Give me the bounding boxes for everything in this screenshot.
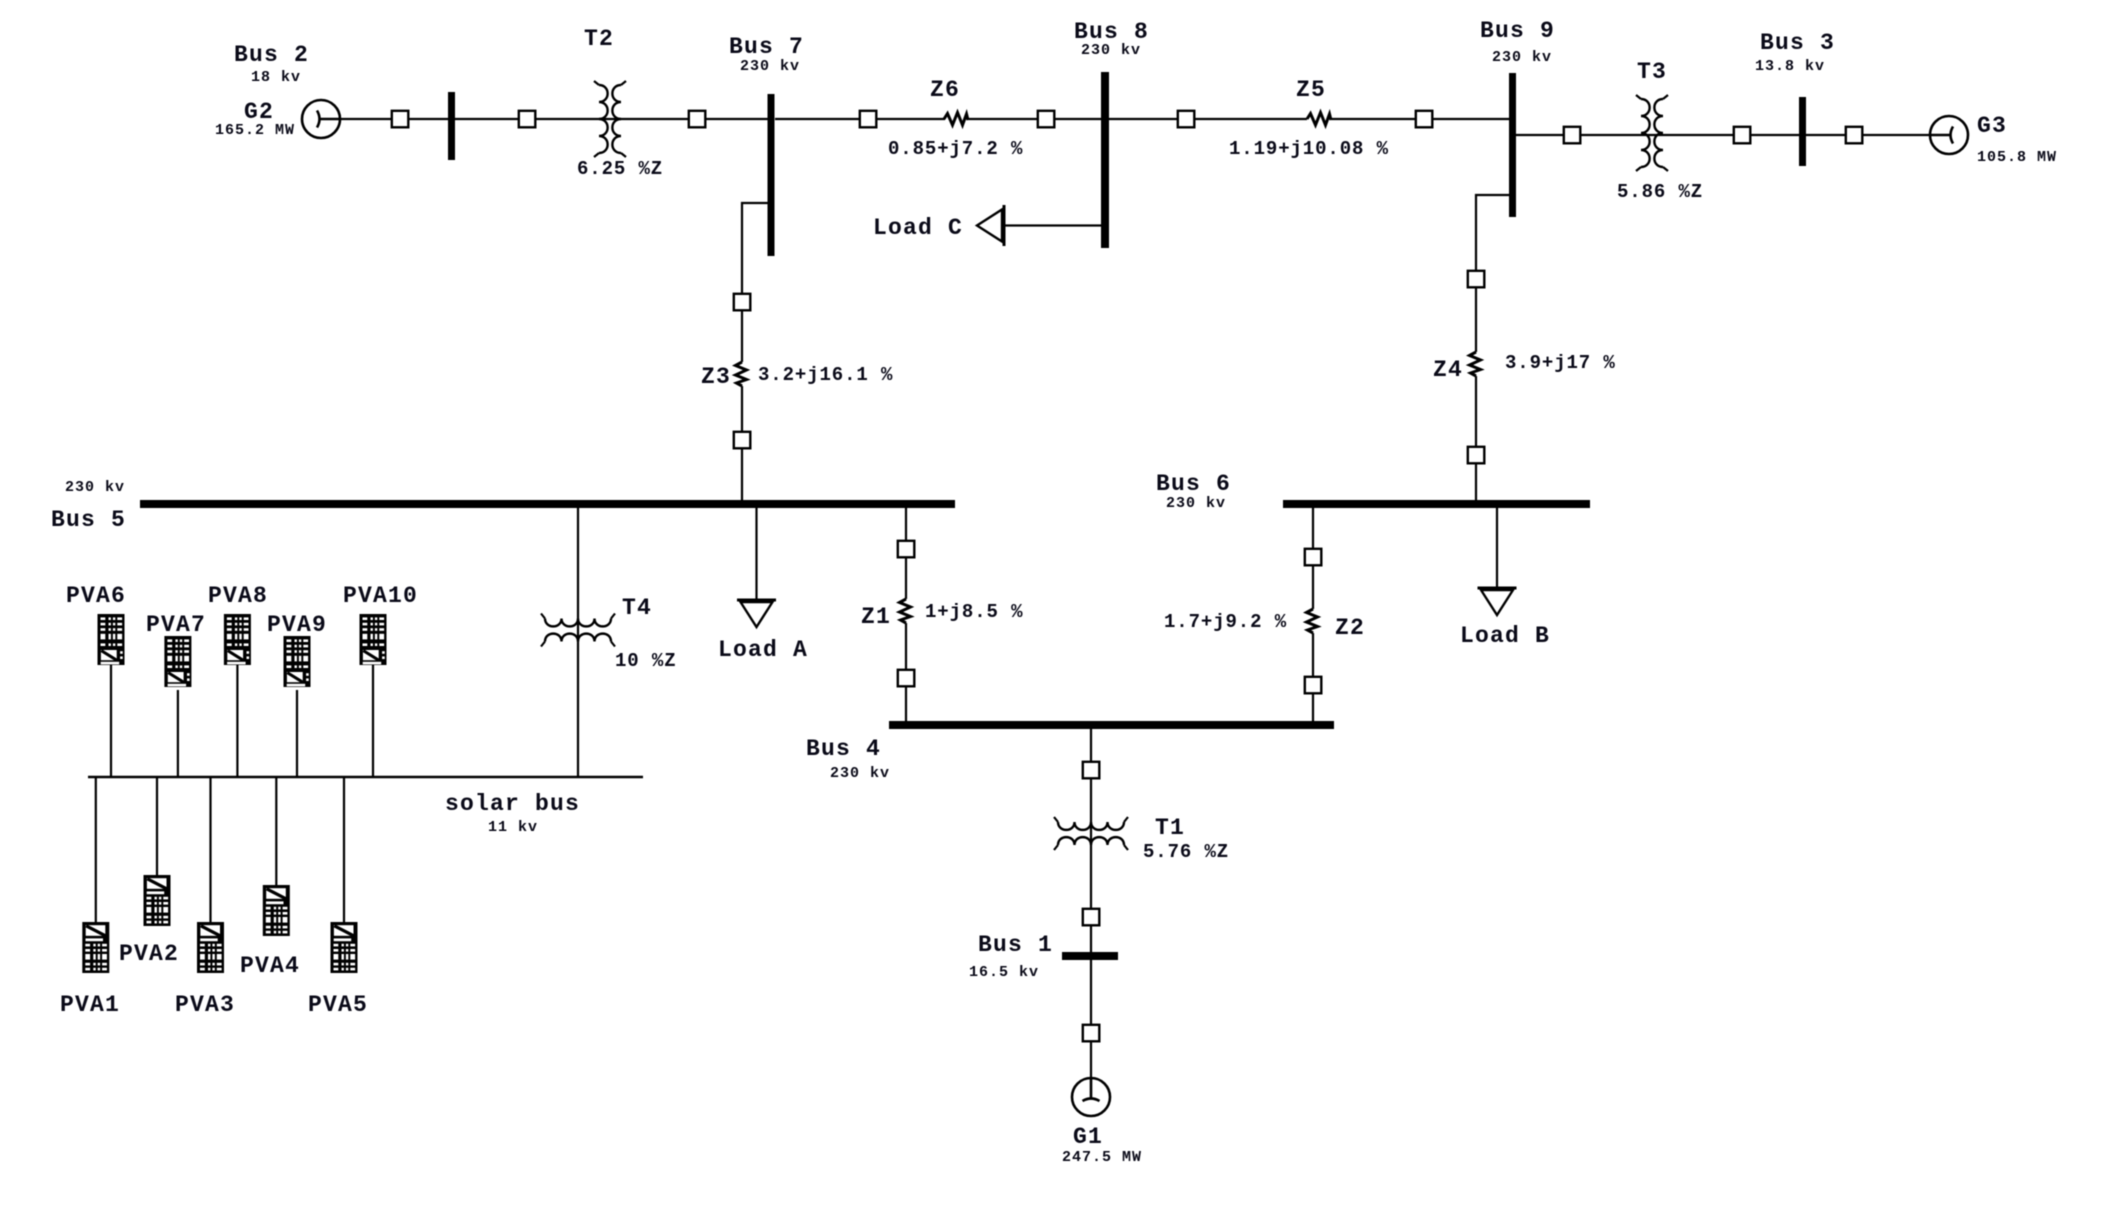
wire Bus 3 to G3	[1806, 134, 1930, 136]
breaker Z6-Bus 8 breaker	[1038, 111, 1055, 128]
wire Bus 9 to Z4 branch	[1476, 195, 1509, 352]
bus solar bus	[88, 776, 643, 779]
wire PVA8 to solar bus	[236, 665, 238, 777]
transformer T2 coils	[599, 85, 608, 153]
wire solar bus to PVA3	[209, 777, 211, 922]
generator G2	[302, 100, 340, 138]
PV array PVA7	[164, 636, 191, 687]
wire Z6 to Bus 8	[967, 118, 1101, 120]
svg-text:Bus 4: Bus 4	[806, 736, 881, 762]
svg-text:105.8 MW: 105.8 MW	[1977, 149, 2057, 166]
svg-text:PVA2: PVA2	[119, 941, 179, 967]
svg-text:5.86 %Z: 5.86 %Z	[1617, 181, 1703, 203]
impedance zigzag Z2	[1307, 609, 1318, 633]
wire G2 to Bus 2	[340, 118, 448, 120]
svg-text:Bus 5: Bus 5	[51, 507, 126, 533]
impedance zigzag Z6	[944, 113, 968, 126]
impedance zigzag Z4	[1470, 352, 1481, 376]
bus Bus 7	[768, 94, 775, 256]
svg-text:Z4: Z4	[1433, 357, 1463, 383]
svg-text:230 kv: 230 kv	[740, 58, 800, 75]
svg-text:6.25 %Z: 6.25 %Z	[577, 158, 663, 180]
svg-text:1.7+j9.2 %: 1.7+j9.2 %	[1164, 611, 1287, 633]
svg-text:PVA9: PVA9	[267, 612, 327, 638]
breaker T3-Bus 3 breaker	[1734, 127, 1751, 144]
wire solar bus to PVA4	[275, 777, 277, 885]
breaker Z3 upper breaker	[734, 294, 751, 311]
svg-text:PVA1: PVA1	[60, 992, 120, 1018]
svg-text:230 kv: 230 kv	[1492, 49, 1552, 66]
bus Bus 3	[1799, 97, 1806, 166]
breaker T2-Bus 7 breaker	[689, 111, 706, 128]
wire Bus 8 to Load C	[1005, 224, 1101, 226]
wire PVA9 to solar bus	[296, 690, 298, 777]
svg-text:Load A: Load A	[718, 637, 808, 663]
svg-text:Bus 7: Bus 7	[729, 34, 804, 60]
breaker Bus 9-T3 breaker	[1564, 127, 1581, 144]
breaker Z5-Bus 9 breaker	[1416, 111, 1433, 128]
wire Bus 2 to Bus 7	[455, 118, 768, 120]
svg-text:G1: G1	[1073, 1124, 1103, 1150]
PV array PVA4	[263, 885, 290, 936]
bus Bus 5	[140, 500, 955, 508]
PV array PVA1	[82, 922, 109, 973]
breaker Bus 8 right breaker	[1178, 111, 1195, 128]
impedance zigzag Z3	[736, 362, 747, 386]
svg-text:13.8 kv: 13.8 kv	[1755, 58, 1825, 75]
svg-text:Bus 1: Bus 1	[978, 932, 1053, 958]
svg-text:PVA10: PVA10	[343, 583, 418, 609]
svg-text:PVA3: PVA3	[175, 992, 235, 1018]
breaker T1-Bus 1 breaker	[1083, 909, 1100, 926]
wire Bus 1 to G1	[1090, 960, 1092, 1078]
svg-text:230 kv: 230 kv	[1081, 42, 1141, 59]
breaker Z2 lower breaker	[1305, 677, 1322, 694]
wire Bus 9 to Bus 3	[1516, 134, 1799, 136]
svg-text:16.5 kv: 16.5 kv	[969, 964, 1039, 981]
breaker Bus 1-G1 breaker	[1083, 1025, 1100, 1042]
bus Bus 6	[1283, 500, 1590, 508]
svg-text:T4: T4	[622, 595, 652, 621]
breaker Z4 upper breaker	[1468, 271, 1485, 288]
wire Bus 7 to Z3 branch	[742, 203, 768, 362]
svg-text:PVA8: PVA8	[208, 583, 268, 609]
wire Z2 to Bus 4	[1312, 633, 1314, 723]
bus Bus 1	[1062, 952, 1118, 960]
PV array PVA2	[144, 875, 171, 926]
svg-text:247.5 MW: 247.5 MW	[1062, 1149, 1142, 1166]
svg-text:230 kv: 230 kv	[830, 765, 890, 782]
wire PVA7 to solar bus	[177, 690, 179, 777]
wire Bus 5 to Load A	[755, 506, 757, 599]
breaker Bus 2 right breaker	[519, 111, 536, 128]
svg-text:3.9+j17 %: 3.9+j17 %	[1505, 352, 1616, 374]
svg-text:Z2: Z2	[1335, 615, 1365, 641]
svg-text:10 %Z: 10 %Z	[615, 650, 677, 672]
PV array PVA3	[197, 922, 224, 973]
bus Bus 4	[889, 721, 1334, 729]
svg-text:1.19+j10.08 %: 1.19+j10.08 %	[1229, 138, 1389, 160]
wire solar bus to PVA2	[156, 777, 158, 875]
svg-text:Bus 3: Bus 3	[1760, 30, 1835, 56]
PV array PVA9	[284, 636, 311, 687]
svg-text:Z6: Z6	[930, 77, 960, 103]
generator G1	[1072, 1078, 1110, 1116]
svg-text:PVA5: PVA5	[308, 992, 368, 1018]
breaker Z3 lower breaker	[734, 432, 751, 449]
svg-text:Bus 6: Bus 6	[1156, 471, 1231, 497]
svg-text:T2: T2	[584, 26, 614, 52]
PV array PVA5	[331, 922, 358, 973]
svg-text:230 kv: 230 kv	[1166, 495, 1226, 512]
bus Bus 2	[448, 92, 455, 160]
PV array PVA6	[98, 614, 125, 665]
wire PVA10 to solar bus	[372, 665, 374, 777]
svg-text:Load B: Load B	[1460, 623, 1550, 649]
svg-text:Z1: Z1	[861, 604, 891, 630]
svg-text:3.2+j16.1 %: 3.2+j16.1 %	[758, 364, 893, 386]
breaker Z1 lower breaker	[898, 670, 915, 687]
wire Bus 7 to Z6	[775, 118, 945, 120]
breaker Z2 upper breaker	[1305, 549, 1322, 566]
breaker G2 breaker	[392, 111, 409, 128]
breaker Z4 lower breaker	[1468, 447, 1485, 464]
wire Z3 to Bus 5	[741, 386, 743, 502]
svg-text:18 kv: 18 kv	[251, 69, 301, 86]
wire Z5 to Bus 9	[1331, 118, 1509, 120]
svg-text:1+j8.5 %: 1+j8.5 %	[925, 601, 1023, 623]
wire Bus 6 to Z2	[1312, 506, 1314, 609]
transformer T3 coils	[1641, 99, 1650, 167]
wire Bus 5 to T4 to solar bus	[577, 506, 579, 777]
transformer T4 coils	[545, 619, 611, 627]
load arrow Load C	[1003, 205, 1006, 246]
load arrow Load A	[737, 599, 776, 602]
svg-text:5.76 %Z: 5.76 %Z	[1143, 841, 1229, 863]
transformer T1 coils	[1058, 822, 1124, 830]
svg-text:solar bus: solar bus	[445, 791, 580, 817]
svg-text:Z5: Z5	[1296, 77, 1326, 103]
svg-text:Bus 9: Bus 9	[1480, 18, 1555, 44]
PV array PVA10	[360, 614, 387, 665]
svg-text:165.2 MW: 165.2 MW	[215, 122, 295, 139]
bus Bus 8	[1101, 72, 1109, 248]
svg-text:11 kv: 11 kv	[488, 819, 538, 836]
svg-text:PVA7: PVA7	[146, 612, 206, 638]
wire Bus 4 to T1 to Bus 1	[1090, 727, 1092, 952]
impedance zigzag Z5	[1307, 113, 1331, 126]
breaker Z1 upper breaker	[898, 541, 915, 558]
svg-text:0.85+j7.2 %: 0.85+j7.2 %	[888, 138, 1023, 160]
breaker Bus 4-T1 breaker	[1083, 762, 1100, 779]
PV array PVA8	[224, 614, 251, 665]
svg-text:230 kv: 230 kv	[65, 479, 125, 496]
wire solar bus to PVA5	[343, 777, 345, 922]
svg-text:G3: G3	[1977, 113, 2007, 139]
wire PVA6 to solar bus	[110, 665, 112, 777]
wire Bus 5 to Z1	[905, 506, 907, 599]
load arrow Load B	[1478, 587, 1517, 590]
svg-text:Z3: Z3	[701, 364, 731, 390]
wire Bus 6 to Load B	[1496, 506, 1498, 587]
wire Z4 to Bus 6	[1475, 376, 1477, 502]
svg-text:T1: T1	[1155, 815, 1185, 841]
wire Z1 to Bus 4	[905, 623, 907, 723]
breaker Bus 3-G3 breaker	[1846, 127, 1863, 144]
svg-text:PVA4: PVA4	[240, 953, 300, 979]
impedance zigzag Z1	[900, 599, 911, 623]
svg-text:Bus 2: Bus 2	[234, 42, 309, 68]
svg-text:T3: T3	[1637, 59, 1667, 85]
breaker Bus 7 right breaker	[860, 111, 877, 128]
wire Bus 8 to Z5	[1109, 118, 1307, 120]
svg-text:Load C: Load C	[873, 215, 963, 241]
svg-text:PVA6: PVA6	[66, 583, 126, 609]
wire solar bus to PVA1	[95, 777, 97, 922]
bus Bus 9	[1509, 73, 1516, 217]
generator G3	[1930, 116, 1968, 154]
